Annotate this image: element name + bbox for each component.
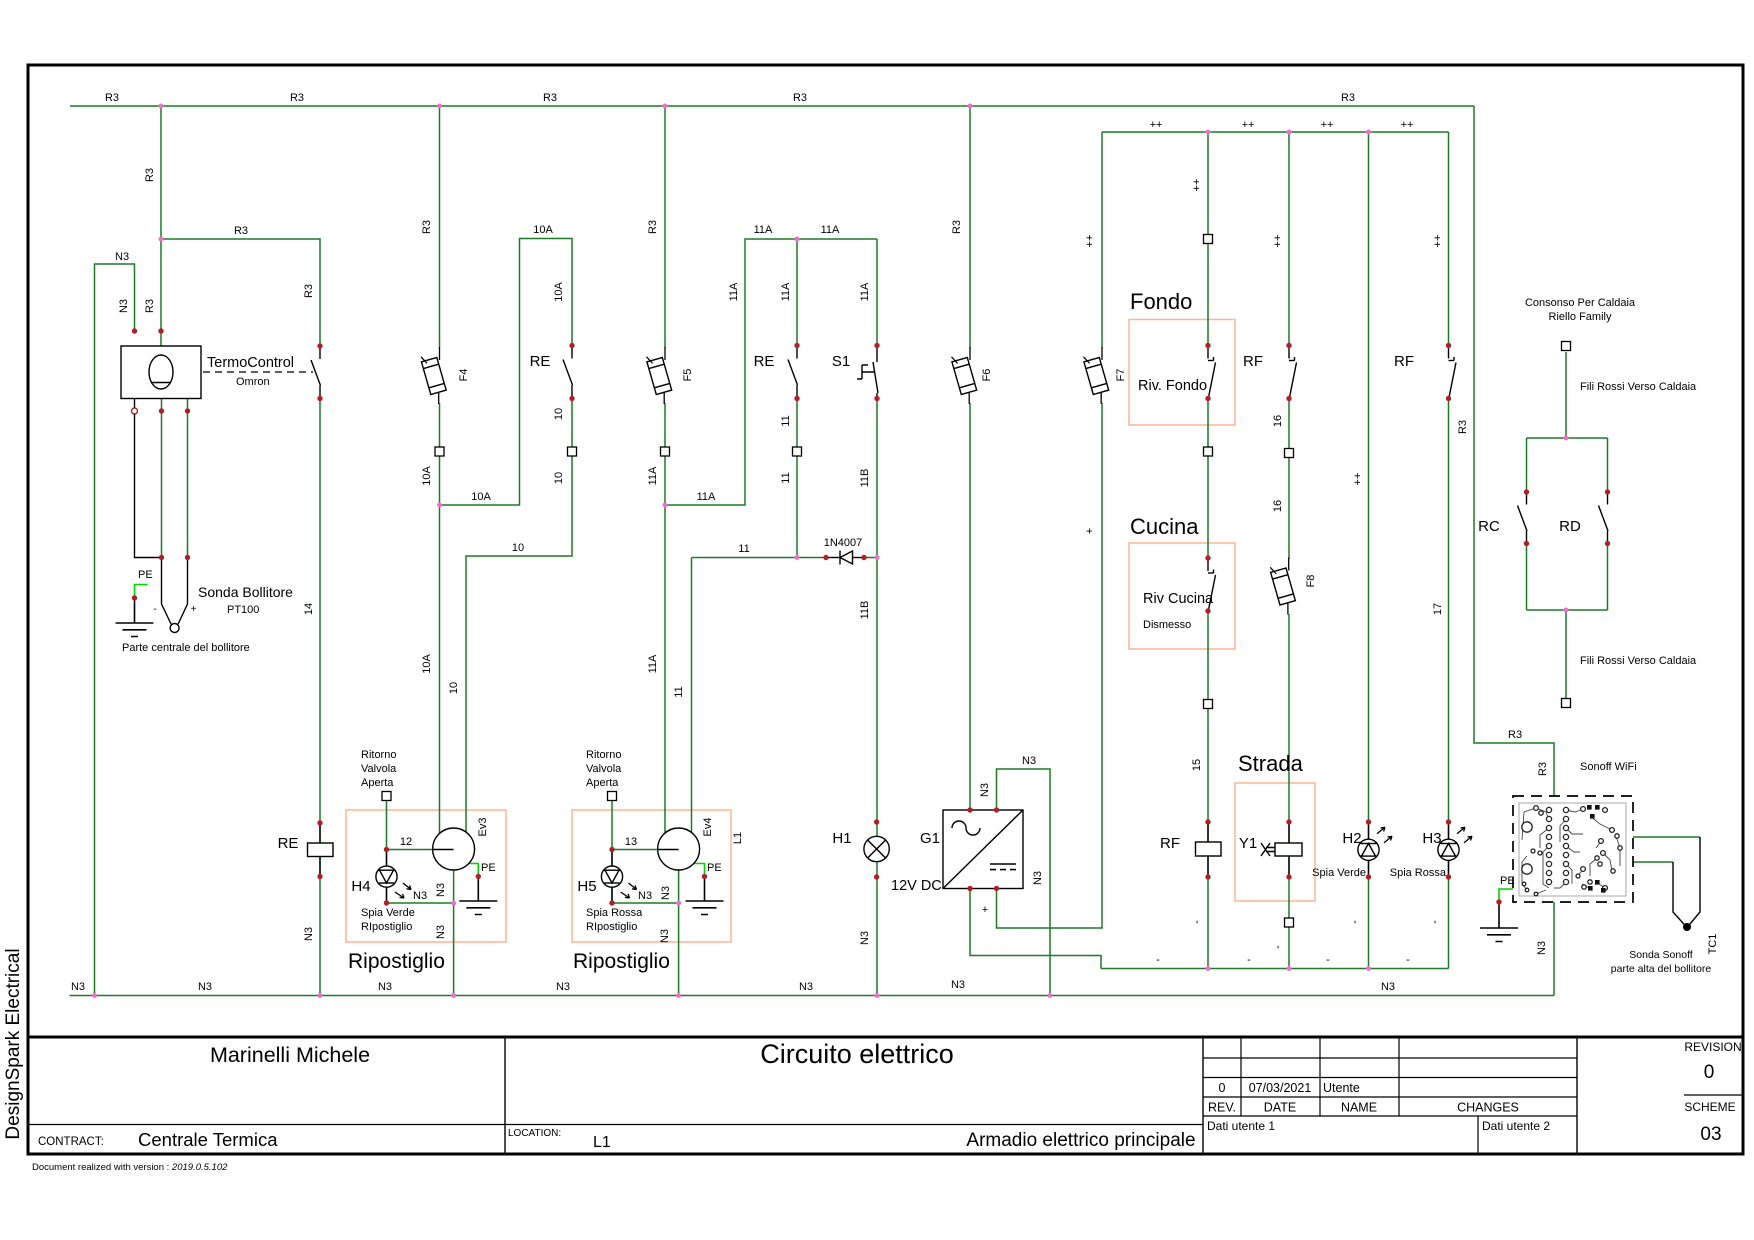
svg-text:R3: R3 <box>1341 92 1355 104</box>
ground symbol at Sonoff PE <box>1480 902 1518 942</box>
svg-text:+: + <box>191 604 197 615</box>
terminal X4 net11 <box>793 447 802 456</box>
svg-text:Valvola: Valvola <box>361 763 397 775</box>
wire net 10A jog to RE contact <box>440 239 573 506</box>
svg-text:++: ++ <box>1272 235 1284 248</box>
svg-text:10A: 10A <box>553 282 565 302</box>
svg-text:G1: G1 <box>920 830 940 847</box>
svg-text:N3: N3 <box>1536 941 1548 955</box>
svg-text:RE: RE <box>278 835 299 852</box>
wire net 11 below RE2 <box>796 399 798 558</box>
svg-text:N3: N3 <box>799 981 813 993</box>
svg-text:RF: RF <box>1243 353 1263 370</box>
pin dot contact T top <box>317 343 322 348</box>
net name labels <box>71 92 1549 993</box>
svg-text:F8: F8 <box>1305 575 1317 588</box>
PE tap at Ev4 <box>692 864 705 877</box>
wire Sonoff sensor wires <box>1633 837 1700 862</box>
svg-text:N3: N3 <box>198 981 212 993</box>
pin dot TermoControl pin + <box>185 408 190 413</box>
svg-text:RE: RE <box>530 353 551 370</box>
svg-text:Cucina: Cucina <box>1130 514 1199 539</box>
contact RF (net 17) <box>1449 347 1457 398</box>
svg-text:Dati utente 1: Dati utente 1 <box>1207 1119 1275 1133</box>
svg-text:Ritorno: Ritorno <box>361 749 396 761</box>
svg-text:R3: R3 <box>290 92 304 104</box>
wire bus R3 top <box>70 105 1474 107</box>
svg-text:Sonoff WiFi: Sonoff WiFi <box>1580 761 1637 773</box>
svg-text:NAME: NAME <box>1341 1101 1377 1115</box>
pin dot PE node Ev3 <box>476 874 481 879</box>
svg-text:16: 16 <box>1272 500 1284 512</box>
svg-text:Ev3: Ev3 <box>477 818 489 837</box>
pin dot RC bottom <box>1524 541 1529 546</box>
diode D 1N4007 <box>826 551 864 565</box>
contact RE (net 11) <box>788 347 798 398</box>
pin dot contact RE2 top <box>794 343 799 348</box>
terminal X1 net10A <box>435 447 444 456</box>
solenoid valve Ev4 <box>658 828 700 870</box>
junction dot junction R3/F4 <box>437 104 442 109</box>
svg-text:H2: H2 <box>1342 830 1361 847</box>
svg-text:R3: R3 <box>1457 420 1469 434</box>
svg-text:0: 0 <box>1219 1081 1226 1095</box>
svg-text:10A: 10A <box>533 224 553 236</box>
svg-text:12V DC: 12V DC <box>891 878 942 894</box>
svg-text:H3: H3 <box>1422 830 1441 847</box>
svg-text:L1: L1 <box>593 1134 611 1151</box>
svg-text:11: 11 <box>673 686 685 697</box>
pin dot S1 top <box>874 343 879 348</box>
relay coil RF <box>1196 822 1222 877</box>
svg-text:RIpostiglio: RIpostiglio <box>586 921 637 933</box>
svg-text:Aperta: Aperta <box>586 777 619 789</box>
svg-text:11A: 11A <box>647 654 659 673</box>
wire net - from G1 <box>970 889 1101 969</box>
svg-text:Aperta: Aperta <box>361 777 394 789</box>
location box Fondo <box>1129 320 1235 426</box>
svg-text:+: + <box>982 904 988 916</box>
wire net 11A to S1 <box>876 239 878 346</box>
junction dot junction 11 <box>795 555 800 560</box>
svg-text:L1: L1 <box>732 832 744 844</box>
pushbutton S1 <box>857 348 878 397</box>
svg-text:H1: H1 <box>832 830 851 847</box>
svg-text:16: 16 <box>1272 415 1284 427</box>
svg-text:Fondo: Fondo <box>1130 289 1192 314</box>
ground symbol at PT100 PE <box>116 598 154 637</box>
svg-text:11A: 11A <box>697 491 716 503</box>
svg-text:N3: N3 <box>1032 871 1044 885</box>
pin dot H3 bottom <box>1446 874 1451 879</box>
junction dot junction N3 H4 <box>451 901 456 906</box>
solenoid valve Ev3 <box>433 828 475 870</box>
TermoControl open pin circle <box>132 408 138 414</box>
svg-text:14: 14 <box>303 603 315 615</box>
svg-text:++: ++ <box>1191 179 1203 192</box>
terminal X8 net15 <box>1204 700 1213 709</box>
junction dot junction ++ Fondo <box>1206 130 1211 135</box>
svg-text:11A: 11A <box>728 282 740 301</box>
svg-text:F7: F7 <box>1115 369 1127 382</box>
junction dot junction N3 Ev4 <box>676 993 681 998</box>
fuse F5 <box>646 347 672 404</box>
svg-text:0: 0 <box>1704 1062 1715 1083</box>
indicator lamp H2 green <box>1358 823 1379 877</box>
svg-text:Spia Rossa: Spia Rossa <box>586 907 643 919</box>
terminal X5 net++ <box>1204 235 1213 244</box>
svg-text:10: 10 <box>512 542 524 554</box>
pin dot H4 top <box>384 847 389 852</box>
svg-text:Armadio elettrico principale: Armadio elettrico principale <box>966 1130 1195 1151</box>
pin dot H3 top <box>1446 819 1451 824</box>
svg-text:Spia Verde: Spia Verde <box>361 907 415 919</box>
lamp H1 <box>864 836 889 861</box>
svg-text:12: 12 <box>400 836 412 848</box>
svg-text:11: 11 <box>780 472 792 483</box>
svg-text:Riello Family: Riello Family <box>1549 311 1612 323</box>
pin dot RivCucina top <box>1205 555 1210 560</box>
svg-text:R3: R3 <box>543 92 557 104</box>
PE tap at Sonoff <box>1499 889 1514 902</box>
sensor TC1 leads <box>1673 837 1700 927</box>
svg-text:Document realized with version: Document realized with version : 2019.0.… <box>32 1162 228 1173</box>
svg-text:10A: 10A <box>421 466 433 486</box>
wire net 14 / N3 contact-RE coil-bus <box>319 399 321 996</box>
junction dot junction N3 left <box>92 993 97 998</box>
wire net 17 chain <box>1448 132 1450 969</box>
svg-text:Centrale Termica: Centrale Termica <box>138 1129 278 1150</box>
svg-text:R3: R3 <box>1508 729 1522 741</box>
svg-text:++: ++ <box>1084 235 1096 248</box>
svg-text:Dati utente 2: Dati utente 2 <box>1482 1119 1550 1133</box>
contact Riv. Fondo <box>1208 347 1216 398</box>
pin dot diode anode <box>823 555 828 560</box>
svg-text:Sonda Sonoff: Sonda Sonoff <box>1629 949 1693 961</box>
pin dot H2 top <box>1366 819 1371 824</box>
wire net ++ H2 chain <box>1368 132 1370 969</box>
svg-text:Ripostiglio: Ripostiglio <box>573 950 670 973</box>
terminal X2 net10 <box>568 447 577 456</box>
wire net 16 chain <box>1288 132 1290 969</box>
temperature controller U TermoControl (Omron) <box>121 346 201 399</box>
svg-text:07/03/2021: 07/03/2021 <box>1249 1081 1312 1095</box>
pin dot H4 bottom <box>384 900 389 905</box>
svg-text:DesignSpark Electrical: DesignSpark Electrical <box>3 948 24 1139</box>
svg-text:R3: R3 <box>234 225 248 237</box>
svg-text:N3: N3 <box>1022 755 1036 767</box>
svg-text:REV.: REV. <box>1208 1101 1236 1115</box>
svg-text:R3: R3 <box>1537 762 1549 776</box>
wire net 12/N3 H4 Ev3 wiring <box>387 801 454 996</box>
contact RD <box>1599 493 1609 544</box>
svg-text:1N4007: 1N4007 <box>824 537 863 549</box>
wire net 11 horizontal to diode <box>692 557 878 559</box>
wire net R3 to Sonoff <box>1474 106 1554 796</box>
contact Riv Cucina <box>1208 559 1216 610</box>
svg-text:PT100: PT100 <box>227 604 259 616</box>
junction dot junction N3 Ev3 <box>451 993 456 998</box>
pin dot G1 pin1 <box>967 807 972 812</box>
solenoid Y1 <box>1261 822 1302 877</box>
svg-text:REVISION: REVISION <box>1684 1040 1741 1054</box>
fuse F4 <box>420 347 446 404</box>
wire net 13/N3 H5 Ev4 wiring <box>612 801 679 996</box>
junction dot junction - 16 <box>1287 966 1292 971</box>
wire net R3/10A F4 chain <box>439 106 441 845</box>
svg-text:N3: N3 <box>435 925 447 939</box>
PE tap at Ev3 <box>466 864 478 877</box>
fuse F7 <box>1083 347 1109 404</box>
svg-text:10: 10 <box>553 472 565 484</box>
svg-text:PE: PE <box>707 862 722 874</box>
svg-text:11A: 11A <box>821 224 840 236</box>
svg-text:++: ++ <box>1352 473 1364 486</box>
wire net R3 F6 to G1 <box>969 106 971 810</box>
svg-text:H4: H4 <box>351 878 370 895</box>
ground symbol at Ev4 PE <box>686 877 724 915</box>
svg-text:++: ++ <box>1150 119 1163 131</box>
svg-text:R3: R3 <box>421 220 433 234</box>
svg-text:11: 11 <box>738 543 749 555</box>
wire net N3 left drop <box>95 264 135 996</box>
svg-text:17: 17 <box>1432 603 1444 615</box>
wire net R3 drop to TermoControl <box>160 106 162 346</box>
pin dot contact T bottom <box>317 396 322 401</box>
Sonoff WiFi module PCB <box>1513 796 1633 902</box>
pin dot H5 top <box>609 847 614 852</box>
pin dot H2 bottom <box>1366 874 1371 879</box>
wire bus N3 bottom <box>70 902 1555 996</box>
svg-text:R3: R3 <box>647 220 659 234</box>
svg-text:RIpostiglio: RIpostiglio <box>361 921 412 933</box>
junction dot junction - H2 <box>1366 966 1371 971</box>
svg-text:Spia Rossa: Spia Rossa <box>1390 867 1447 879</box>
svg-text:Spia Verde: Spia Verde <box>1312 867 1366 879</box>
pin dot S1 bottom <box>874 396 879 401</box>
indicator lamp H3 red <box>1438 823 1459 877</box>
terminal X7 net16 <box>1285 449 1294 458</box>
svg-text:-: - <box>1429 920 1441 924</box>
pin dot Y1 bottom <box>1286 874 1291 879</box>
svg-text:N3: N3 <box>118 299 130 313</box>
pin dot TermoControl pin - <box>159 408 164 413</box>
pin dot contact RE2 bottom <box>794 396 799 401</box>
indicator lamp H5 red <box>601 850 622 904</box>
svg-text:N3: N3 <box>413 890 427 902</box>
PE tap at PT100 <box>135 585 148 599</box>
svg-text:R3: R3 <box>951 220 963 234</box>
pin dot G1 pin3 <box>967 886 972 891</box>
junction dot junction R3/F5 <box>663 104 668 109</box>
svg-text:LOCATION:: LOCATION: <box>508 1128 561 1139</box>
svg-text:++: ++ <box>1242 119 1255 131</box>
svg-text:Utente: Utente <box>1323 1081 1360 1095</box>
svg-text:R3: R3 <box>144 299 156 313</box>
terminal X13 caldaia <box>1562 699 1571 708</box>
wire net 10 to Ev3 <box>466 399 572 846</box>
junction dot junction N3 RE <box>318 993 323 998</box>
pin dot PE node Ev4 <box>702 874 707 879</box>
svg-text:++: ++ <box>1321 119 1334 131</box>
svg-text:11: 11 <box>780 415 792 426</box>
svg-text:DATE: DATE <box>1264 1101 1296 1115</box>
svg-text:11A: 11A <box>780 282 792 301</box>
svg-text:R3: R3 <box>303 284 315 298</box>
svg-text:10: 10 <box>553 408 565 420</box>
svg-text:CONTRACT:: CONTRACT: <box>38 1136 104 1148</box>
pin dot G1 pin4 <box>994 886 999 891</box>
svg-text:-: - <box>1406 954 1410 966</box>
contact RC <box>1518 493 1528 544</box>
location box Cucina <box>1129 543 1235 649</box>
junction dot junction N3 H1 <box>875 993 880 998</box>
svg-text:N3: N3 <box>638 890 652 902</box>
junction dot junction caldaia top <box>1564 436 1569 441</box>
wire PT100 wires <box>162 399 188 558</box>
svg-text:N3: N3 <box>115 251 129 263</box>
svg-text:RF: RF <box>1160 835 1180 852</box>
PT100 sensor tip <box>170 624 179 633</box>
pin dot Riv.Fondo top <box>1205 343 1210 348</box>
pin dot RD bottom <box>1605 541 1610 546</box>
pin dot TermoControl pin N3 <box>132 328 137 333</box>
svg-text:-: - <box>1272 945 1284 949</box>
terminal X11 net13 <box>608 792 617 801</box>
svg-text:Riv. Fondo: Riv. Fondo <box>1138 378 1207 394</box>
terminal X12 caldaia <box>1562 342 1571 351</box>
svg-text:R3: R3 <box>793 92 807 104</box>
terminal X3 net11A <box>661 447 670 456</box>
pin dot diode cathode <box>861 555 866 560</box>
svg-text:Ritorno: Ritorno <box>586 749 621 761</box>
junction dot junction 11A <box>795 237 800 242</box>
junction dot junction R3/TermoControl <box>159 104 164 109</box>
junction dot junction ++ 16 <box>1287 130 1292 135</box>
wire net + from G1 through F7 to ++ bus <box>997 132 1103 928</box>
wire net ++/15 Fondo chain <box>1207 132 1209 969</box>
svg-text:Parte centrale del bollitore: Parte centrale del bollitore <box>122 642 250 654</box>
junction dot junction 10A <box>437 503 442 508</box>
pin dot contact RE1 bottom <box>569 396 574 401</box>
svg-text:11B: 11B <box>859 469 871 488</box>
svg-text:10A: 10A <box>421 654 433 674</box>
svg-text:03: 03 <box>1700 1124 1721 1145</box>
terminal X6 Fondo <box>1204 447 1213 456</box>
pin dot Y1 top <box>1286 819 1291 824</box>
pin dot H1 bottom <box>874 874 879 879</box>
junction dot junction 11B <box>875 555 880 560</box>
pin dot Riv.Fondo bottom <box>1205 396 1210 401</box>
svg-text:Marinelli Michele: Marinelli Michele <box>210 1043 370 1067</box>
svg-text:Consonso Per Caldaia: Consonso Per Caldaia <box>1525 297 1636 309</box>
svg-text:N3: N3 <box>659 929 671 943</box>
pin dot RC top <box>1524 489 1529 494</box>
svg-text:N3: N3 <box>1381 981 1395 993</box>
pin dot contact17 top <box>1446 343 1451 348</box>
svg-text:N3: N3 <box>951 979 965 991</box>
relay coil RE <box>308 823 334 877</box>
svg-text:TC1: TC1 <box>1707 934 1719 955</box>
wire net N3 from G1 <box>997 769 1051 996</box>
terminal X10 net12 <box>382 792 391 801</box>
junction dot junction R3 jog <box>159 237 164 242</box>
junction dot junction caldaia bottom <box>1564 608 1569 613</box>
svg-text:Strada: Strada <box>1238 751 1304 776</box>
svg-text:F5: F5 <box>682 369 694 382</box>
pin dot PT100 node - <box>159 555 164 560</box>
dashed actuator link TermoControl to its contact <box>203 371 313 373</box>
svg-text:RD: RD <box>1559 518 1581 535</box>
pin dot coil RF top <box>1205 819 1210 824</box>
junction dot junction R3/F6 <box>968 104 973 109</box>
svg-text:-: - <box>1349 920 1361 924</box>
pin dot coil RE bottom <box>317 874 322 879</box>
pin dot PE node PT100 <box>132 595 137 600</box>
svg-text:N3: N3 <box>556 981 570 993</box>
svg-text:N3: N3 <box>303 927 315 941</box>
pin dot PE node Sonoff <box>1496 899 1501 904</box>
wire net R3 jog to TermoControl contact <box>161 239 320 346</box>
svg-text:-: - <box>153 604 156 615</box>
pin dot coil RF bottom <box>1205 874 1210 879</box>
pin dot RivCucina bottom <box>1205 608 1210 613</box>
svg-text:SCHEME: SCHEME <box>1684 1100 1735 1114</box>
svg-text:-: - <box>1191 920 1203 924</box>
junction dot junction N3 H5 <box>676 901 681 906</box>
pin dot H1 top <box>874 819 879 824</box>
power supply G1 12V DC <box>943 810 1023 889</box>
svg-text:H5: H5 <box>577 878 596 895</box>
wire net 11A to RE2 contact <box>796 239 798 346</box>
svg-text:Omron: Omron <box>236 376 270 388</box>
junction dot junction N3 G1 <box>1048 993 1053 998</box>
terminal X9 Y1 <box>1285 918 1294 927</box>
wire net 11A jog <box>665 239 877 505</box>
svg-text:S1: S1 <box>832 353 850 370</box>
svg-text:Fili Rossi Verso Caldaia: Fili Rossi Verso Caldaia <box>1580 655 1697 667</box>
pin dot G1 pin2 <box>994 807 999 812</box>
svg-text:N3: N3 <box>660 886 672 900</box>
pin dot contact RE1 top <box>569 343 574 348</box>
svg-text:N3: N3 <box>859 931 871 945</box>
svg-text:CHANGES: CHANGES <box>1457 1101 1519 1115</box>
svg-text:R3: R3 <box>105 92 119 104</box>
svg-text:Fili Rossi Verso Caldaia: Fili Rossi Verso Caldaia <box>1580 381 1697 393</box>
pin dot TermoControl pin R3 <box>158 328 163 333</box>
fuse F6 <box>951 347 977 404</box>
svg-text:Ripostiglio: Ripostiglio <box>348 950 445 973</box>
svg-text:-: - <box>1156 954 1160 966</box>
svg-text:N3: N3 <box>979 783 991 797</box>
svg-text:11A: 11A <box>754 224 773 236</box>
contact of TermoControl <box>311 347 321 398</box>
svg-text:11A: 11A <box>859 282 871 301</box>
svg-text:RC: RC <box>1478 518 1500 535</box>
pin dot contact17 bottom <box>1446 396 1451 401</box>
pin dot PT100 node + <box>185 555 190 560</box>
wire bus ++ <box>1102 131 1449 133</box>
title block grid lines <box>28 1037 1743 1154</box>
junction dot junction ++ H2 <box>1366 130 1371 135</box>
junction dot junction 11A F5 <box>663 503 668 508</box>
PT100 probe leads <box>135 399 188 625</box>
svg-text:N3: N3 <box>71 981 85 993</box>
location box Strada <box>1235 783 1315 901</box>
wire RC RD wiring <box>1527 352 1608 699</box>
svg-text:PE: PE <box>138 569 153 581</box>
wire bus - <box>1101 968 1449 970</box>
